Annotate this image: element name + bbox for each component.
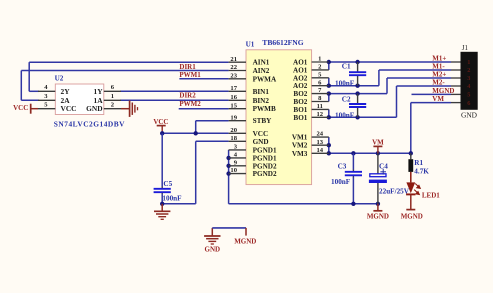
ground symbol GND at tie [204, 236, 220, 244]
C3 value 100nF [331, 178, 351, 186]
U2 designator label [55, 75, 64, 83]
GND net label at tie [205, 246, 221, 254]
svg-text:M1+: M1+ [432, 55, 446, 63]
svg-text:BO1: BO1 [293, 114, 307, 122]
wire BO2/M2+ net (U1 pins7,8 to J1 pin3) [329, 78, 451, 102]
junction dots MGND rail [351, 202, 380, 206]
junction dots BO1 net [327, 115, 360, 119]
U1 left pin names [253, 59, 277, 178]
svg-text:DIR1: DIR1 [179, 63, 196, 71]
net label DIR2 [179, 92, 196, 100]
J1 designator [462, 44, 469, 52]
svg-text:BO1: BO1 [293, 106, 307, 114]
svg-text:1: 1 [318, 56, 321, 63]
wire STBY tie to VCC (U1 pin19) [196, 121, 229, 134]
wire PWM2 net (to U1 pin15) [179, 108, 229, 110]
svg-text:GND: GND [253, 138, 269, 146]
capacitor C3 [345, 153, 362, 204]
U1 left pin stubs [229, 62, 246, 173]
net label VM at J1 [432, 95, 444, 103]
U1 right pin stubs [312, 62, 329, 153]
wire AIN1 net (U1 pin21 to U2 pin4 2Y) [29, 62, 228, 91]
R1 value 4.7K [414, 168, 429, 176]
svg-text:BIN2: BIN2 [253, 97, 270, 105]
MGND net label below C4 [367, 213, 389, 221]
C5 value 100nF [162, 195, 182, 203]
svg-text:MGND: MGND [234, 238, 256, 246]
svg-text:VCC: VCC [13, 104, 28, 112]
svg-text:100nF: 100nF [162, 195, 182, 203]
op IC U1 TB6612FNG body [246, 50, 312, 185]
svg-text:TB6612FNG: TB6612FNG [262, 38, 303, 47]
C5 designator [163, 180, 172, 188]
svg-text:100nF: 100nF [331, 178, 351, 186]
svg-text:3: 3 [467, 75, 470, 82]
svg-text:1Y: 1Y [94, 87, 104, 96]
wire GND net (C5 bottom to U1 pin18) [162, 141, 228, 204]
net label M1- at J1 [432, 63, 445, 71]
U2 right pin names [86, 87, 103, 113]
wire AO2/M1- net (U1 pins5,6 to J1 pin2) [329, 70, 451, 86]
net label M2- at J1 [432, 79, 445, 87]
U2 right pin stubs [104, 91, 121, 108]
C4 polarity plus sign [380, 169, 386, 175]
R1 designator [414, 159, 423, 167]
capacitor C5 [154, 133, 171, 204]
svg-text:C2: C2 [342, 95, 351, 103]
svg-text:BO2: BO2 [293, 98, 307, 106]
net label M2+ at J1 [432, 71, 446, 79]
C1 designator [342, 62, 351, 70]
net label MGND at J1 [432, 87, 454, 95]
power ground MGND below C4 [373, 204, 382, 211]
svg-text:LED1: LED1 [422, 191, 440, 199]
capacitor C4 electrolytic 22uF/25V [369, 153, 387, 204]
J1 pin numbers 1-6 [467, 59, 471, 107]
LED1 designator [422, 191, 440, 199]
IC U2 SN74LVC2G14DBV body [55, 84, 104, 115]
svg-text:1: 1 [111, 93, 114, 100]
capacitor C1 [349, 62, 366, 86]
net label PWM2 [179, 100, 201, 108]
svg-text:PWM2: PWM2 [179, 100, 201, 108]
svg-text:PGND2: PGND2 [253, 162, 277, 170]
wire BIN1 net (U2 pin6 1Y to U1 pin17) [120, 90, 229, 92]
svg-text:22: 22 [230, 64, 237, 71]
svg-text:1: 1 [467, 59, 470, 66]
svg-text:U2: U2 [55, 75, 64, 83]
MGND net label at tie [234, 238, 256, 246]
junction dot C5 bottom [160, 202, 164, 206]
net label DIR1 [179, 63, 196, 71]
svg-text:VM1: VM1 [292, 134, 308, 142]
J1 GND label [461, 111, 478, 120]
svg-text:C1: C1 [342, 62, 351, 70]
power VCC bar at U2 pin5 [31, 104, 38, 114]
svg-text:AIN2: AIN2 [253, 67, 270, 75]
wire DIR2 net (U2 pin1 1A to U1 pin16) [120, 99, 229, 101]
U1 right pin numbers [317, 56, 324, 154]
svg-text:R1: R1 [414, 159, 423, 167]
connector J1 [461, 52, 478, 110]
svg-text:19: 19 [230, 114, 237, 121]
junction dots AO1 net [327, 60, 360, 64]
svg-text:12: 12 [317, 111, 324, 118]
C2 value 100nF [335, 111, 355, 119]
svg-text:24: 24 [317, 131, 324, 138]
ground symbol below C5 [154, 204, 170, 220]
svg-text:AIN1: AIN1 [253, 59, 270, 67]
svg-text:PGND1: PGND1 [253, 154, 277, 162]
svg-text:M2-: M2- [432, 79, 445, 87]
VCC net label (left) [13, 104, 28, 112]
svg-text:C3: C3 [338, 163, 347, 171]
svg-text:M2+: M2+ [432, 71, 446, 79]
C4 value 22uF/25V [379, 187, 410, 195]
C4 designator [379, 163, 388, 171]
capacitor C2 [349, 94, 366, 118]
power VCC symbol (main, above C5) [153, 118, 168, 133]
power ground MGND below LED1 [406, 209, 415, 211]
svg-text:2: 2 [467, 67, 470, 74]
MGND net label below LED1 [401, 213, 423, 221]
U2 value label SN74LVC2G14DBV [54, 120, 125, 129]
resistor R1 [408, 153, 413, 172]
svg-text:VM3: VM3 [292, 150, 308, 158]
svg-text:BO2: BO2 [293, 90, 307, 98]
wire PGND bracket (U1 pins 3,4,9,10 to MGND rail) [229, 150, 378, 204]
svg-text:14: 14 [317, 147, 324, 154]
U2 left pin stubs [38, 91, 55, 108]
svg-text:20: 20 [230, 127, 237, 134]
svg-text:11: 11 [317, 103, 323, 110]
wire MGND stub to J1 pin5 [412, 93, 452, 95]
svg-text:PWM1: PWM1 [179, 71, 201, 79]
svg-text:4.7K: 4.7K [414, 168, 429, 176]
U1 right pin names [292, 59, 308, 158]
svg-text:C5: C5 [163, 180, 172, 188]
wire PWM1 net (to U1 pin23) [179, 78, 228, 80]
svg-text:5: 5 [467, 92, 470, 99]
svg-text:VM2: VM2 [292, 142, 308, 150]
junction dots VM rail [327, 143, 413, 156]
svg-text:MGND: MGND [432, 87, 454, 95]
svg-text:STBY: STBY [253, 117, 273, 125]
svg-text:PGND1: PGND1 [253, 146, 277, 154]
svg-text:100nF: 100nF [335, 111, 355, 119]
wire BO1/M2- net (U1 pins11,12 to J1 pin4) [329, 86, 451, 117]
svg-text:AO1: AO1 [293, 66, 308, 74]
svg-text:GND: GND [461, 111, 478, 120]
U2 right pin numbers [111, 84, 115, 108]
U1 designator label [246, 41, 255, 49]
svg-text:DIR2: DIR2 [179, 92, 196, 100]
junction dots BO2 net [327, 91, 360, 95]
svg-text:VM: VM [432, 95, 444, 103]
power VM symbol above C4 [372, 138, 384, 153]
wire VM rail (U1 pins24,13,14 VM1-VM3, C3, C4, R1) [329, 137, 411, 153]
svg-text:AO2: AO2 [293, 74, 308, 82]
junction dots PGND bracket [226, 156, 230, 176]
svg-text:MGND: MGND [401, 213, 423, 221]
svg-text:15: 15 [230, 102, 237, 109]
net label M1+ at J1 [432, 55, 446, 63]
svg-text:VCC: VCC [253, 130, 269, 138]
svg-text:VM: VM [372, 138, 384, 146]
svg-text:GND: GND [205, 246, 221, 254]
svg-text:100nF: 100nF [335, 79, 355, 87]
svg-text:J1: J1 [462, 44, 469, 52]
svg-text:PGND2: PGND2 [253, 170, 277, 178]
svg-text:23: 23 [230, 72, 237, 79]
junction dots VCC wire [160, 131, 198, 135]
wire GND to MGND net tie [212, 228, 246, 236]
svg-text:GND: GND [86, 104, 102, 113]
svg-text:MGND: MGND [367, 213, 389, 221]
wire DIR1 net (U1 pin22 to U2 pin3 2A) [21, 71, 228, 101]
C2 designator [342, 95, 351, 103]
J1 pin stubs [451, 62, 461, 103]
U1 left pin numbers [230, 56, 237, 174]
svg-text:10: 10 [230, 167, 237, 174]
U2 left pin names [61, 87, 77, 113]
wire AO1/M1+ net (U1 pins1,2 to J1 pin1) [329, 62, 451, 70]
svg-text:U1: U1 [246, 41, 255, 49]
svg-text:2Y: 2Y [61, 87, 71, 96]
U2 left pin numbers [44, 84, 48, 108]
junction dots AO2 net [327, 84, 360, 88]
net label PWM1 [179, 71, 201, 79]
svg-text:AO1: AO1 [293, 59, 308, 67]
ground sideways at U2 pin2 GND [121, 101, 138, 117]
svg-text:SN74LVC2G14DBV: SN74LVC2G14DBV [54, 120, 125, 129]
diode LED1 [406, 172, 420, 210]
svg-text:AO2: AO2 [293, 82, 308, 90]
C1 value 100nF [335, 79, 355, 87]
svg-text:17: 17 [230, 85, 237, 92]
svg-text:21: 21 [230, 56, 237, 63]
svg-text:18: 18 [230, 135, 237, 142]
svg-text:22uF/25V: 22uF/25V [379, 187, 410, 195]
wire VM net (rail to J1 pin6) [411, 103, 451, 154]
svg-text:PWMA: PWMA [253, 75, 277, 83]
svg-text:PWMB: PWMB [253, 105, 276, 113]
svg-text:BIN1: BIN1 [253, 88, 270, 96]
svg-text:13: 13 [317, 139, 324, 146]
wire VCC net (VCC symbol to U1 pin20) [162, 132, 228, 134]
svg-text:M1-: M1- [432, 63, 445, 71]
C3 designator [338, 163, 347, 171]
U1 value label TB6612FNG [262, 38, 303, 47]
svg-text:VCC: VCC [61, 104, 77, 113]
svg-text:16: 16 [230, 94, 237, 101]
